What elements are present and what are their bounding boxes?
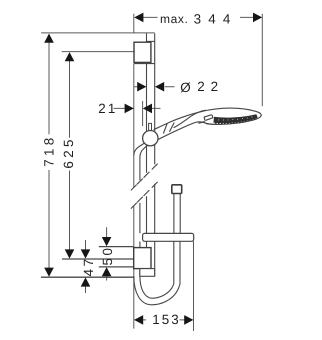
svg-text:1: 1 <box>42 149 57 156</box>
svg-text:8: 8 <box>42 138 57 145</box>
svg-text:153: 153 <box>152 312 178 327</box>
svg-text:Ø: Ø <box>180 80 190 95</box>
svg-text:max.: max. <box>160 12 188 26</box>
svg-text:2: 2 <box>61 150 76 157</box>
svg-text:0: 0 <box>100 248 115 255</box>
svg-text:7: 7 <box>81 259 96 266</box>
svg-text:5: 5 <box>61 140 76 147</box>
svg-text:6: 6 <box>61 161 76 168</box>
svg-text:5: 5 <box>100 258 115 265</box>
svg-text:344: 344 <box>194 11 231 26</box>
svg-text:7: 7 <box>42 159 57 166</box>
svg-text:4: 4 <box>81 268 96 276</box>
